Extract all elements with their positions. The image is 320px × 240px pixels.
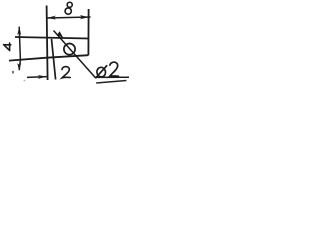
plate right edge (also extension line for dim 8 above) — [87, 9, 89, 55]
inner vertical line (extension line for dim 2, through plate) — [52, 39, 56, 80]
plate bottom edge (extended left as extension line for dim 4) — [9, 55, 88, 60]
hole label "Ø2" — [96, 62, 119, 78]
plate top edge (extended left as extension line for dim 4) — [15, 37, 88, 39]
leader shelf line — [95, 76, 130, 78]
dim 4 top arrowhead — [17, 27, 21, 36]
dim 2 dimension line — [27, 76, 47, 79]
leader arrowhead — [57, 31, 64, 38]
dim 4 dimension line — [19, 27, 20, 71]
dim 8 label "8" — [67, 2, 72, 7]
dim 2 label "2" — [62, 67, 70, 78]
dim 2 arrowhead — [38, 75, 47, 79]
dim 8 right arrowhead — [80, 15, 89, 19]
hole circle — [64, 44, 75, 55]
speck noise — [12, 71, 14, 74]
dim 4 bottom arrowhead — [17, 63, 21, 70]
plate left edge (also extension line for dim 8 above and dim 2 below) — [47, 6, 48, 81]
dim 4 label "4" (rotated) — [4, 43, 11, 51]
dim 8 left arrowhead — [47, 16, 56, 20]
second underline below shelf — [96, 81, 126, 84]
dim 8 dimension line — [47, 17, 91, 18]
leader line through hole — [54, 31, 96, 78]
background — [0, 0, 131, 88]
